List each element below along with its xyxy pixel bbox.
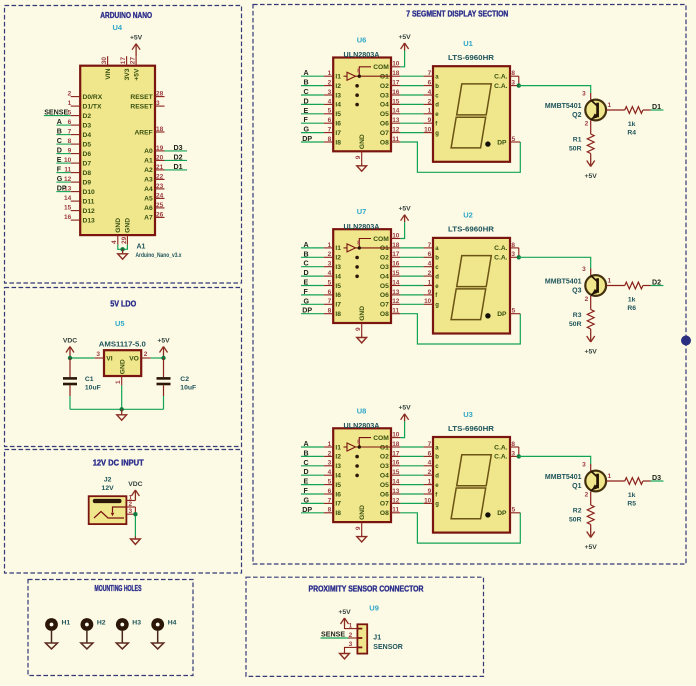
- U4 pin 19 (A0): [144, 145, 164, 155]
- svg-text:C: C: [304, 260, 309, 268]
- svg-text:I8: I8: [335, 510, 341, 517]
- U1 labels: [448, 39, 494, 62]
- svg-text:3: 3: [328, 89, 332, 96]
- svg-text:g: g: [435, 502, 439, 508]
- wire + net label G (row U8): [301, 496, 324, 504]
- base wire Q2: [606, 109, 625, 111]
- svg-text:O2: O2: [380, 83, 389, 90]
- svg-text:SENSE: SENSE: [44, 109, 68, 117]
- svg-text:C.A.: C.A.: [494, 245, 508, 252]
- svg-text:A: A: [304, 440, 309, 448]
- wire + net label A (row U6): [301, 69, 324, 77]
- svg-text:12: 12: [392, 497, 400, 504]
- wire joining U4 GND pins: [118, 245, 128, 250]
- U4 reference A1 / value: [136, 244, 182, 260]
- svg-text:E: E: [304, 107, 309, 115]
- wire U6 O7 to U1 segment: [400, 132, 423, 134]
- svg-text:D2: D2: [652, 278, 661, 286]
- svg-text:2: 2: [328, 450, 332, 457]
- svg-text:D13: D13: [83, 217, 96, 224]
- svg-text:F: F: [304, 487, 309, 495]
- svg-text:1: 1: [428, 108, 432, 115]
- svg-text:3: 3: [328, 261, 332, 268]
- svg-text:G: G: [304, 126, 310, 134]
- svg-text:8: 8: [328, 308, 332, 315]
- svg-text:R3: R3: [573, 312, 582, 319]
- connector J1 SENSOR body: [357, 624, 367, 653]
- svg-text:O6: O6: [380, 292, 389, 299]
- svg-text:R4: R4: [627, 130, 636, 137]
- wire + net label C (row U8): [301, 459, 324, 467]
- U3 pin 2 (d): [424, 469, 440, 479]
- U4 pin 24 (A5): [144, 192, 164, 202]
- U2 pin 6 (b): [424, 251, 440, 261]
- wire + net label A (row U8): [301, 440, 324, 448]
- svg-text:D: D: [304, 97, 309, 105]
- svg-text:O5: O5: [380, 482, 389, 489]
- svg-text:I7: I7: [335, 501, 341, 508]
- svg-text:A5: A5: [144, 196, 153, 203]
- U7 pin 17 (O2): [380, 251, 401, 261]
- U7 pin 12 (O7): [380, 298, 401, 308]
- wire + net label C (row U7): [301, 260, 324, 268]
- svg-text:I3: I3: [335, 463, 341, 470]
- svg-text:6: 6: [428, 251, 432, 258]
- wire U8 O4 to U3 segment: [400, 474, 423, 476]
- U3 pin 7 (a): [424, 441, 440, 451]
- svg-text:10: 10: [392, 61, 400, 68]
- svg-text:25: 25: [156, 202, 164, 209]
- svg-text:10: 10: [424, 497, 432, 504]
- svg-text:12: 12: [392, 127, 400, 134]
- wire + net label SENSE (to J1): [321, 631, 349, 639]
- transistor Q1 MMBT5401: [545, 462, 612, 499]
- wire + net label G (row U7): [301, 297, 324, 305]
- svg-text:17: 17: [392, 251, 400, 258]
- svg-text:F: F: [304, 116, 309, 124]
- svg-text:5: 5: [328, 279, 332, 286]
- svg-text:11: 11: [392, 507, 399, 514]
- svg-text:18: 18: [392, 441, 400, 448]
- svg-text:18: 18: [156, 126, 164, 133]
- svg-text:5: 5: [512, 308, 516, 315]
- svg-text:7 SEGMENT DISPLAY SECTION: 7 SEGMENT DISPLAY SECTION: [406, 9, 508, 18]
- section frame: ARDUINO NANO: [5, 6, 242, 284]
- svg-text:MMBT5401: MMBT5401: [545, 103, 582, 110]
- wire U2 C.A. to Q3 collector: [519, 257, 591, 268]
- svg-text:A: A: [304, 241, 309, 249]
- svg-text:1: 1: [328, 70, 332, 77]
- U8 pin 1 (I1): [324, 441, 341, 451]
- svg-text:4: 4: [111, 240, 118, 244]
- svg-text:D1: D1: [174, 163, 183, 171]
- ground symbol below J2: [131, 537, 141, 545]
- wire + net label D2 (from U4): [165, 153, 188, 161]
- svg-text:O7: O7: [380, 302, 389, 309]
- ground symbol below U8: [357, 533, 367, 542]
- svg-text:9: 9: [355, 327, 362, 331]
- svg-text:7: 7: [328, 497, 332, 504]
- wire U6 O8 to U1 DP: [400, 142, 520, 172]
- svg-text:26: 26: [156, 211, 164, 218]
- svg-text:C: C: [304, 459, 309, 467]
- svg-text:O4: O4: [380, 102, 389, 109]
- wire + net label D3: [643, 474, 664, 482]
- svg-text:D0/RX: D0/RX: [83, 94, 103, 101]
- U7 pin 14 (O5): [380, 279, 401, 289]
- U6 pin 16 (O3): [380, 89, 401, 99]
- svg-text:2: 2: [585, 492, 589, 499]
- svg-text:C2: C2: [180, 376, 189, 383]
- svg-text:O3: O3: [380, 92, 389, 99]
- display U3 LTS-6960HR body: [433, 437, 510, 533]
- U2 seven segment glyph: [451, 256, 491, 320]
- U6 pin 8 (I8): [324, 136, 341, 146]
- svg-text:U2: U2: [463, 211, 473, 220]
- svg-text:A0: A0: [144, 148, 153, 155]
- svg-text:10uF: 10uF: [85, 384, 101, 391]
- junction dot on right border: [681, 336, 691, 346]
- svg-text:19: 19: [156, 145, 164, 152]
- svg-text:50R: 50R: [569, 517, 582, 524]
- U8 pin 14 (O5): [380, 479, 401, 489]
- svg-text:VI: VI: [106, 356, 112, 363]
- svg-text:ULN2803A: ULN2803A: [344, 52, 380, 59]
- wire U8 COM to +5V: [400, 421, 404, 437]
- wire U6 COM to +5V: [400, 51, 404, 67]
- +5V power symbol below Q2: [585, 154, 598, 181]
- svg-text:+5V: +5V: [130, 35, 143, 42]
- U8 pin 13 (O6): [380, 488, 401, 498]
- svg-text:LTS-6960HR: LTS-6960HR: [448, 227, 494, 234]
- svg-text:H2: H2: [97, 620, 106, 627]
- U1 pin 5 (DP): [497, 136, 520, 146]
- resistor R3 50R: [569, 310, 594, 330]
- J2 pin 1: [126, 494, 135, 501]
- wire U7 O5 to U2 segment: [400, 285, 423, 287]
- svg-text:9: 9: [355, 155, 362, 159]
- U6 pin 4 (I4): [324, 98, 341, 108]
- svg-text:MMBT5401: MMBT5401: [545, 279, 582, 286]
- svg-text:G: G: [57, 175, 63, 183]
- U5 labels: [99, 319, 146, 349]
- svg-text:4: 4: [428, 261, 432, 268]
- wire + net label D (row U8): [301, 468, 324, 476]
- svg-text:O4: O4: [380, 473, 389, 480]
- svg-text:MOUNTING HOLES: MOUNTING HOLES: [95, 584, 142, 593]
- U4 pin 30 (VIN): [101, 56, 112, 79]
- svg-text:I1: I1: [335, 245, 341, 252]
- U1 pin 10 (g): [424, 127, 440, 137]
- svg-text:8: 8: [511, 441, 515, 448]
- svg-text:4: 4: [428, 460, 432, 467]
- U4 pin 27 (+5V): [130, 56, 141, 80]
- svg-text:H3: H3: [132, 620, 141, 627]
- svg-text:O6: O6: [380, 491, 389, 498]
- svg-text:6: 6: [328, 117, 332, 124]
- svg-text:12V: 12V: [102, 485, 115, 492]
- svg-text:2: 2: [585, 121, 589, 128]
- wire + net label DP (row U8): [301, 506, 324, 514]
- base wire Q3: [606, 285, 625, 287]
- wire + net label D3 (from U4): [165, 144, 188, 152]
- transistor Q2 MMBT5401: [545, 91, 612, 128]
- svg-text:1: 1: [115, 380, 122, 384]
- U6 internal driver symbol: [344, 67, 392, 107]
- svg-text:B: B: [304, 449, 309, 457]
- svg-text:I2: I2: [335, 255, 341, 262]
- wire + net label D2: [643, 278, 664, 286]
- svg-text:H1: H1: [62, 620, 71, 627]
- svg-text:9: 9: [428, 289, 432, 296]
- svg-text:J1: J1: [373, 635, 381, 642]
- svg-text:8: 8: [328, 507, 332, 514]
- wire U6 O2 to U1 segment: [400, 85, 423, 87]
- U6 pin 3 (I3): [324, 89, 341, 99]
- svg-text:DP: DP: [302, 506, 312, 514]
- U8 internal driver symbol: [344, 438, 392, 478]
- +5V power symbol below Q3: [585, 329, 598, 356]
- U8 pin 8 (I8): [324, 507, 341, 517]
- svg-text:9: 9: [355, 526, 362, 530]
- bottom ground bus wire: [70, 408, 164, 410]
- svg-text:+5V: +5V: [585, 349, 598, 356]
- svg-text:O5: O5: [380, 111, 389, 118]
- svg-text:11: 11: [392, 308, 399, 315]
- svg-text:O1: O1: [380, 444, 389, 451]
- svg-text:g: g: [435, 303, 439, 309]
- emitter wire Q2: [590, 120, 592, 134]
- svg-text:C.A.: C.A.: [494, 255, 508, 262]
- svg-text:10: 10: [392, 232, 400, 239]
- wire VDC to U5 VI: [70, 357, 95, 359]
- wire U7 O6 to U2 segment: [400, 294, 423, 296]
- +5V power symbol at J1: [338, 609, 351, 626]
- svg-text:RESET: RESET: [130, 103, 153, 110]
- svg-text:F: F: [304, 288, 309, 296]
- svg-text:C.A.: C.A.: [494, 83, 508, 90]
- svg-text:D1: D1: [652, 103, 661, 111]
- svg-text:D10: D10: [83, 189, 96, 196]
- section frame: 5V LDO: [5, 288, 242, 447]
- svg-text:2: 2: [585, 296, 589, 303]
- U7 pin 13 (O6): [380, 289, 401, 299]
- svg-text:d: d: [435, 474, 439, 480]
- U3 pin 8 (C.A.): [494, 441, 519, 451]
- svg-text:7: 7: [328, 298, 332, 305]
- wire + net label A (row U7): [301, 241, 324, 249]
- svg-text:16: 16: [64, 214, 72, 221]
- svg-text:15: 15: [64, 205, 72, 212]
- U4 pin 17 (3V3): [120, 56, 131, 80]
- svg-text:3: 3: [582, 462, 586, 469]
- svg-text:27: 27: [130, 57, 137, 65]
- wire J2 pin2/pin3 to ground: [134, 507, 136, 537]
- U4 pin 26 (A7): [144, 211, 164, 221]
- svg-text:4: 4: [328, 469, 332, 476]
- svg-text:18: 18: [392, 70, 400, 77]
- svg-text:O8: O8: [380, 311, 389, 318]
- svg-text:DP: DP: [497, 510, 507, 517]
- svg-text:A3: A3: [144, 177, 153, 184]
- svg-text:U3: U3: [463, 410, 473, 419]
- junction at U1 common anode: [517, 83, 521, 87]
- wire + net label B (row U7): [301, 250, 324, 258]
- wire + net label G (to U4): [56, 175, 70, 183]
- junction +5V/C2: [161, 356, 165, 360]
- J1 pin 2: [348, 632, 357, 639]
- svg-text:23: 23: [156, 183, 164, 190]
- svg-text:E: E: [304, 279, 309, 287]
- svg-text:R2: R2: [573, 508, 582, 515]
- U4 pin 15 (D12): [64, 205, 95, 215]
- svg-text:8: 8: [328, 136, 332, 143]
- svg-text:R6: R6: [627, 305, 636, 312]
- svg-text:5: 5: [512, 136, 516, 143]
- svg-text:U7: U7: [357, 207, 367, 216]
- resistor R4 1k: [625, 107, 643, 137]
- svg-text:I4: I4: [335, 473, 341, 480]
- svg-text:I8: I8: [335, 139, 341, 146]
- U4 pin 16 (D13): [64, 214, 95, 224]
- svg-text:I4: I4: [335, 102, 341, 109]
- svg-text:5: 5: [328, 479, 332, 486]
- driver U8 ULN2803A body: [333, 428, 391, 522]
- U7 pin 2 (I2): [324, 251, 341, 261]
- U5 pin 1 (GND): [115, 376, 122, 385]
- svg-text:Arduino_Nano_v3.x: Arduino_Nano_v3.x: [136, 252, 182, 259]
- svg-text:1k: 1k: [628, 492, 636, 499]
- wire + net label D (to U4): [56, 147, 70, 155]
- svg-text:AMS1117-5.0: AMS1117-5.0: [99, 342, 146, 349]
- svg-text:I2: I2: [335, 83, 341, 90]
- J1 labels: [369, 604, 403, 652]
- svg-text:1: 1: [68, 100, 72, 107]
- U2 pin 7 (a): [424, 242, 440, 252]
- wire U5 VO to +5V: [151, 357, 164, 359]
- ground symbol below U6: [357, 162, 367, 171]
- U8 labels: [344, 406, 380, 430]
- svg-text:4: 4: [328, 98, 332, 105]
- U7 pin 4 (I4): [324, 270, 341, 280]
- J2 pin 2: [126, 501, 135, 508]
- svg-text:2: 2: [428, 469, 432, 476]
- svg-text:DP: DP: [497, 139, 507, 146]
- svg-text:D6: D6: [83, 151, 92, 158]
- section frame: PROXIMITY SENSOR CONNECTOR: [246, 577, 484, 676]
- svg-text:D9: D9: [83, 179, 92, 186]
- svg-text:O8: O8: [380, 139, 389, 146]
- U7 pin 9 (GND): [355, 306, 366, 334]
- U3 pin 6 (b): [424, 450, 440, 460]
- svg-text:8: 8: [357, 69, 360, 75]
- U7 pin 16 (O3): [380, 261, 401, 271]
- svg-text:15: 15: [392, 469, 400, 476]
- U7 pin 8 (I8): [324, 308, 341, 318]
- U5 GND wire down: [121, 385, 123, 409]
- svg-text:GND: GND: [359, 505, 366, 520]
- wire U6 O4 to U1 segment: [400, 103, 423, 105]
- section frame: 12V DC INPUT: [5, 450, 242, 574]
- svg-text:+5V: +5V: [338, 609, 351, 616]
- svg-text:+5V: +5V: [585, 173, 598, 180]
- U6 pin 14 (O5): [380, 108, 401, 118]
- ground symbol below U4: [118, 249, 128, 259]
- U8 pin 18 (O1): [380, 441, 401, 451]
- U8 pin 12 (O7): [380, 497, 401, 507]
- U4 pin 18 (AREF): [134, 126, 164, 136]
- U2 pin 4 (c): [424, 261, 440, 271]
- svg-text:U4: U4: [113, 23, 123, 32]
- svg-text:LTS-6960HR: LTS-6960HR: [448, 55, 494, 62]
- wire U6 O1 to U1 segment: [400, 75, 423, 77]
- svg-text:VDC: VDC: [128, 481, 142, 488]
- svg-text:12: 12: [392, 298, 400, 305]
- wire U6 O5 to U1 segment: [400, 113, 423, 115]
- U3 seven segment glyph: [451, 455, 491, 519]
- svg-text:16: 16: [392, 460, 400, 467]
- svg-text:LTS-6960HR: LTS-6960HR: [448, 426, 494, 433]
- svg-text:17: 17: [392, 80, 400, 87]
- section frame: 7 SEGMENT DISPLAY SECTION: [253, 5, 686, 565]
- U4 pin 5 (D2): [68, 110, 92, 120]
- VDC power symbol at J2: [128, 481, 142, 501]
- svg-text:COM: COM: [373, 236, 389, 243]
- U3 pin 5 (DP): [497, 507, 520, 517]
- svg-text:O2: O2: [380, 255, 389, 262]
- svg-text:COM: COM: [373, 435, 389, 442]
- svg-text:VIN: VIN: [105, 68, 112, 79]
- junction at U3 common anode: [517, 454, 521, 458]
- wire U7 O7 to U2 segment: [400, 303, 423, 305]
- svg-text:50R: 50R: [569, 146, 582, 153]
- U4 pin 3 (RESET): [130, 100, 164, 110]
- svg-text:A1: A1: [137, 244, 146, 251]
- wire + net label B (to U4): [56, 128, 70, 136]
- wire + net label E (to U4): [56, 156, 70, 164]
- svg-text:1: 1: [428, 479, 432, 486]
- wire U8 O8 to U3 DP: [400, 513, 520, 543]
- svg-text:I8: I8: [335, 311, 341, 318]
- svg-text:DP: DP: [497, 311, 507, 318]
- capacitor C2 10uF: [157, 358, 197, 409]
- U6 pin 17 (O2): [380, 80, 401, 90]
- U6 pin 15 (O4): [380, 98, 401, 108]
- regulator U5 AMS1117-5.0 body: [104, 350, 141, 376]
- base wire Q1: [606, 480, 625, 482]
- svg-text:b: b: [435, 84, 439, 90]
- svg-text:6: 6: [328, 488, 332, 495]
- svg-text:30: 30: [101, 57, 108, 65]
- svg-text:B: B: [304, 79, 309, 87]
- mounting hole H3: [116, 618, 141, 649]
- U1 pin 9 (f): [424, 117, 439, 127]
- svg-text:50R: 50R: [569, 321, 582, 328]
- +5V power symbol above U4: [130, 35, 143, 57]
- U3 labels: [448, 410, 494, 433]
- U7 pin 10 (COM): [373, 232, 400, 242]
- svg-text:D3: D3: [83, 122, 92, 129]
- svg-text:R1: R1: [573, 137, 582, 144]
- U1 pin 3 (C.A.): [494, 76, 519, 90]
- U8 pin 16 (O3): [380, 460, 401, 470]
- svg-text:PROXIMITY SENSOR CONNECTOR: PROXIMITY SENSOR CONNECTOR: [309, 584, 424, 593]
- U6 pin 6 (I6): [324, 117, 341, 127]
- svg-text:I6: I6: [335, 491, 341, 498]
- wire U7 COM to +5V: [400, 222, 404, 238]
- svg-text:15: 15: [392, 98, 400, 105]
- U4 pin 23 (A4): [144, 183, 164, 193]
